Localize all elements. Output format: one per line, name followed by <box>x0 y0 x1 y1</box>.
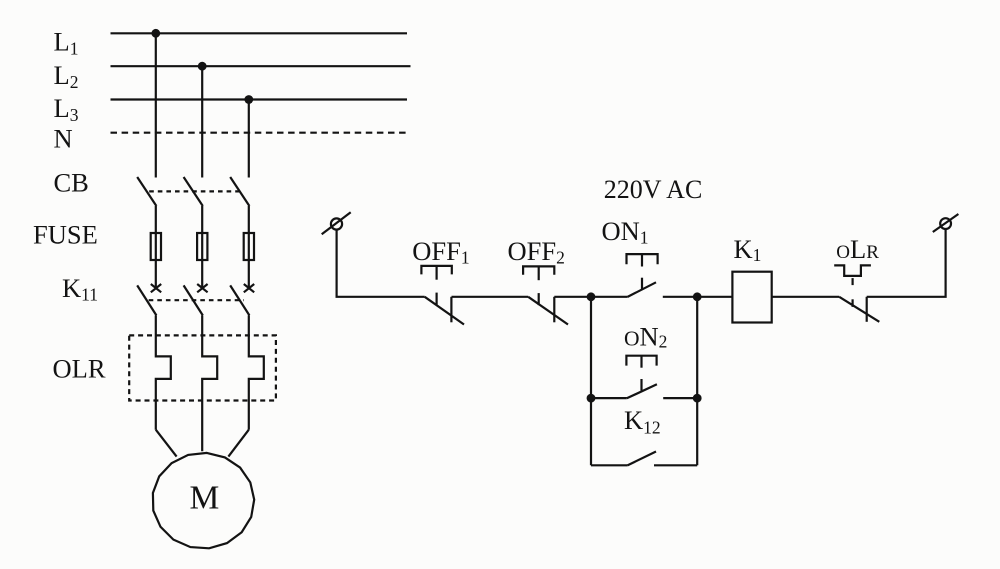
svg-text:OFF2: OFF2 <box>508 236 565 267</box>
circuit breaker CB pole 3 blade <box>230 177 249 206</box>
contactor K11 linkage (dashed) <box>149 299 244 301</box>
contactor K11 pole 3 (x mark + blade) <box>230 284 254 315</box>
wire right branch (node B down) <box>696 297 698 466</box>
pushbutton ON2 NO contact blade <box>627 384 657 398</box>
wire L3 rail <box>111 98 408 100</box>
svg-text:K1: K1 <box>734 234 762 265</box>
wire OFF2 to node A <box>554 296 591 298</box>
wire node A2 to ON2 <box>591 397 627 399</box>
pushbutton ON2 actuator (bracket + stem) <box>626 356 656 391</box>
svg-text:ON1: ON1 <box>602 216 649 247</box>
svg-text:OFF1: OFF1 <box>412 236 469 267</box>
node B2 junction dot <box>693 394 702 403</box>
svg-text:L3: L3 <box>54 93 79 125</box>
contactor K11 pole 2 (x mark + blade) <box>184 284 208 315</box>
wire ON1 to node B <box>663 296 697 298</box>
wire motor lead left (diagonal) <box>156 430 177 457</box>
pushbutton ON1 actuator (bracket + stem) <box>627 254 658 289</box>
overload relay OLR heater element 2 <box>202 315 217 451</box>
fuse F1 <box>151 233 161 288</box>
pushbutton OFF2 NC contact <box>528 297 568 325</box>
wire phase1 CB to fuse <box>155 206 157 233</box>
node L2 junction dot <box>198 62 207 71</box>
wire motor lead right (diagonal) <box>228 430 248 457</box>
wire phase3 drop from L3 to CB <box>248 100 250 178</box>
circuit breaker CB linkage (dashed) <box>149 190 239 192</box>
wire left branch (node A down) <box>590 297 592 466</box>
fuse F3 <box>244 233 254 288</box>
svg-text:OLR: OLR <box>53 353 106 383</box>
overload relay OLR trip paddle <box>834 265 871 307</box>
overload relay OLR dashed box <box>129 335 276 400</box>
wire left terminal drop <box>337 229 425 296</box>
svg-text:CB: CB <box>54 167 89 197</box>
svg-text:L2: L2 <box>54 60 79 92</box>
wire K1 to OLR contact <box>772 296 840 298</box>
svg-text:220V AC: 220V AC <box>604 175 703 204</box>
overload relay OLR heater element 1 <box>156 315 171 429</box>
wire ON2 to node B2 <box>663 397 697 399</box>
circuit breaker CB pole 2 blade <box>184 177 203 206</box>
svg-text:K11: K11 <box>62 273 98 305</box>
wire N rail (dashed) <box>111 132 411 134</box>
svg-text:OLR: OLR <box>836 234 879 264</box>
pushbutton OFF1 NC contact <box>425 297 464 325</box>
wire phase2 CB to fuse <box>201 206 203 233</box>
svg-text:FUSE: FUSE <box>33 220 98 250</box>
svg-text:ON2: ON2 <box>624 321 667 351</box>
wire bottom left to K12 <box>591 464 627 466</box>
node A junction dot <box>587 292 596 301</box>
svg-text:N: N <box>54 124 73 154</box>
node L1 junction dot <box>151 29 160 38</box>
svg-text:L1: L1 <box>54 27 79 59</box>
node A2 junction dot <box>587 394 596 403</box>
node L3 junction dot <box>244 95 253 104</box>
contactor K11 pole 1 (x mark + blade) <box>137 284 161 315</box>
terminal left (circle with slash) <box>322 212 351 234</box>
wire K12 to bottom right <box>654 464 697 466</box>
coil K1 <box>732 272 771 323</box>
wire node A to ON1 <box>591 296 627 298</box>
circuit breaker CB pole 1 blade <box>137 177 156 206</box>
motor M circle (polygon) <box>153 453 254 548</box>
contact K12 NO blade <box>627 452 656 466</box>
wire phase1 drop from L1 to CB <box>155 33 157 177</box>
terminal right (circle with slash) <box>933 214 959 232</box>
svg-text:M: M <box>190 480 220 517</box>
wire L1 rail <box>111 32 408 34</box>
pushbutton OFF1 actuator (bracket + stem) <box>421 266 451 305</box>
svg-text:K12: K12 <box>624 405 661 438</box>
wire node B to K1 coil <box>697 296 732 298</box>
fuse F2 <box>197 233 207 288</box>
wire L2 rail <box>111 65 411 67</box>
wire OLR contact to right terminal <box>867 229 946 297</box>
pushbutton OFF2 actuator (bracket + stem) <box>523 266 554 305</box>
wire OFF1 to OFF2 <box>452 296 529 298</box>
pushbutton ON1 NO contact blade <box>627 282 656 297</box>
overload relay OLR NC contact <box>839 297 879 322</box>
overload relay OLR heater element 3 <box>249 315 264 429</box>
wire phase2 drop from L2 to CB <box>201 66 203 177</box>
wire phase3 CB to fuse <box>248 206 250 233</box>
node B junction dot <box>693 292 702 301</box>
